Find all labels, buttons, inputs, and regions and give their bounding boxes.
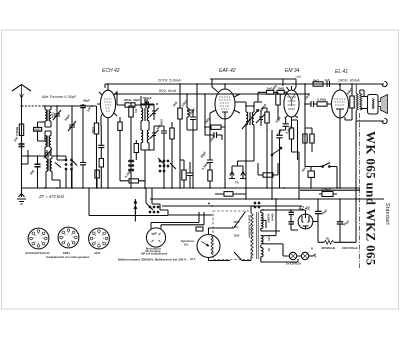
wire EL41 grid left — [327, 103, 332, 105]
svg-text:50pF: 50pF — [200, 151, 208, 159]
wire primary top — [250, 206, 252, 213]
capacitor 5nF mains box — [308, 171, 314, 177]
svg-text:ECH42,EAF42,EL41: ECH42,EAF42,EL41 — [26, 251, 51, 255]
svg-text:7: 7 — [63, 237, 64, 239]
wire ground bus double segment — [300, 189, 360, 191]
tube EL41 envelope — [332, 90, 349, 118]
wire x299 down — [298, 160, 300, 199]
svg-text:0,1MΩ: 0,1MΩ — [317, 98, 327, 102]
IF transformer T2 secondary — [252, 106, 254, 130]
resistor 1M box — [277, 90, 284, 94]
dashdot chassis line — [359, 113, 361, 268]
wire selector top — [209, 228, 235, 235]
svg-text:2: 2 — [71, 234, 72, 236]
resistor antenna shunt — [19, 124, 23, 136]
capacitor 50pF below EM34 — [283, 124, 289, 127]
switch contacts column mid — [129, 160, 131, 162]
capacitor HV a — [289, 212, 295, 214]
wire EM34 col — [292, 120, 298, 160]
capacitor 5nF x164 — [161, 131, 167, 133]
selector circle — [197, 235, 220, 258]
svg-text:Sockelansicht von unten gesehe: Sockelansicht von unten gesehen — [46, 255, 90, 259]
wire x193 — [187, 110, 193, 188]
svg-text:207V, 5,6mA: 207V, 5,6mA — [157, 78, 181, 83]
switch contacts lower row2 — [149, 211, 151, 213]
wire col x83 — [82, 104, 84, 156]
svg-text:0,5MΩ: 0,5MΩ — [15, 126, 19, 136]
switch contacts lower row1 — [149, 206, 151, 208]
wire antenna branch loop — [22, 150, 29, 164]
svg-text:220V: 220V — [234, 220, 240, 224]
resistor 1M horizontal — [211, 125, 221, 129]
capacitor 50pF top — [145, 99, 147, 105]
resistor R6 x172 — [170, 128, 174, 139]
box GBA on wire — [196, 227, 203, 231]
svg-text:1: 1 — [38, 234, 39, 236]
svg-text:425/26mH: 425/26mH — [321, 246, 335, 250]
capacitor 50uF b — [337, 222, 343, 224]
wire switch cols — [305, 130, 319, 167]
resistor x120 — [118, 122, 122, 131]
trimmer T2a — [256, 110, 265, 126]
wire x101 lower — [100, 126, 102, 188]
tube AZ41 envelope — [298, 214, 313, 229]
wire x172 — [171, 122, 173, 188]
output transformer primary zigzag — [356, 84, 358, 110]
svg-text:4V: 4V — [267, 248, 271, 251]
switch arm mid — [158, 158, 176, 169]
wire selector bottom — [209, 258, 231, 261]
svg-text:(HF voll ausgesteuert): (HF voll ausgesteuert) — [141, 252, 167, 255]
wire lamps — [283, 251, 316, 256]
wire transformer bottom — [356, 110, 384, 121]
pilot lamp 1 — [289, 252, 296, 259]
antenna symbol — [12, 85, 31, 92]
wire x131 — [130, 103, 132, 188]
wire EAF42 plate top — [224, 84, 226, 89]
switch contacts mid cluster — [159, 160, 161, 162]
tube ECH42 electrodes — [104, 99, 112, 111]
node — [21, 105, 23, 107]
wire x352 — [345, 84, 352, 120]
ground symbol main — [17, 188, 26, 204]
tube EM34 electrodes — [287, 97, 296, 109]
wire res to coil — [38, 121, 52, 141]
svg-text:7: 7 — [33, 238, 34, 240]
resistor 50kO screen x352 — [350, 96, 354, 108]
svg-text:Alle Trimmer 5-30pF: Alle Trimmer 5-30pF — [41, 95, 77, 99]
svg-text:20kΩ, 50pF: 20kΩ, 50pF — [124, 98, 140, 102]
capacitor x190 — [187, 173, 193, 176]
svg-text:5: 5 — [98, 243, 99, 245]
transformer secondary HV winding — [261, 213, 263, 229]
wire switch net drop — [145, 188, 147, 203]
wire col x96 — [96, 106, 98, 188]
svg-text:≈0V: ≈0V — [296, 75, 303, 79]
wire x312 vert — [305, 128, 312, 152]
wire HV winding taps — [261, 210, 291, 231]
coil L2 core — [48, 136, 49, 148]
wire measure tap x135 — [134, 199, 137, 222]
svg-text:7: 7 — [94, 238, 95, 240]
switch S2 arm — [72, 161, 77, 166]
svg-text:Standart: Standart — [384, 203, 390, 225]
wire x292 tail — [292, 139, 300, 160]
svg-text:WK 065 und WKZ 065: WK 065 und WKZ 065 — [364, 131, 379, 266]
selector resistor zigzag — [211, 236, 213, 255]
transformer core — [256, 212, 258, 259]
svg-text:5: 5 — [38, 243, 39, 245]
wire x97b — [96, 178, 98, 188]
svg-text:6: 6 — [65, 241, 66, 243]
svg-text:2x300V: 2x300V — [267, 214, 271, 223]
coil L1a antenna pair — [45, 106, 47, 127]
wire T1 bottoms — [141, 142, 154, 188]
switch S1 contacts — [65, 159, 67, 161]
wire AZ41 top — [291, 210, 306, 214]
svg-text:3: 3 — [43, 238, 44, 240]
capacitor C3 right column — [80, 105, 86, 107]
svg-text:AZ41: AZ41 — [94, 251, 101, 255]
wire T1 tops — [141, 96, 154, 104]
oscillator coil pair left — [46, 156, 48, 188]
resistor 0.2M x292 low — [289, 128, 293, 139]
svg-text:500Ω: 500Ω — [34, 127, 40, 131]
tube EAF42 envelope — [215, 89, 235, 119]
IF T2 arrow — [242, 110, 259, 130]
capacitor 10nF h — [214, 132, 217, 138]
wire right col x356 — [355, 121, 357, 199]
svg-text:50μF: 50μF — [342, 219, 350, 227]
svg-text:EM 34: EM 34 — [285, 68, 300, 74]
socket pin numbers — [33, 233, 104, 245]
svg-text:50pF: 50pF — [83, 99, 90, 103]
svg-text:50pF: 50pF — [275, 116, 283, 124]
meter circle — [146, 228, 165, 247]
wire heater winding taps — [261, 199, 283, 251]
IF transformer T2 primary — [246, 106, 248, 130]
resistor x101 lower — [99, 159, 103, 168]
svg-text:0,05μF: 0,05μF — [322, 188, 332, 192]
transformer primary zigzag — [251, 213, 253, 258]
resistor 1M vert x278 — [276, 94, 280, 105]
tube EAF42 side pins — [210, 94, 240, 113]
output transformer secondary zigzag — [360, 94, 362, 111]
wire x101 grid — [100, 116, 102, 126]
svg-text:EL 41: EL 41 — [335, 69, 348, 75]
svg-text:1kΩ: 1kΩ — [172, 100, 179, 107]
junction dots ground bus — [44, 187, 46, 189]
wire top link — [45, 105, 97, 107]
coil L2a antenna pair — [45, 131, 47, 156]
wire x267 — [262, 108, 267, 188]
wire TA feeds — [232, 140, 254, 172]
tube EM34 bottom wires — [285, 116, 299, 121]
svg-text:1nF: 1nF — [325, 78, 331, 82]
tube ECH42 pin stubs — [99, 92, 117, 116]
resistor small x97b — [95, 170, 99, 178]
capacitor 1nF in top bus — [327, 81, 330, 87]
pilot lamp 2 — [301, 252, 308, 259]
wire ground bus — [21, 187, 360, 189]
svg-text:50pF: 50pF — [64, 114, 72, 122]
svg-text:TA: TA — [235, 181, 240, 185]
svg-text:1: 1 — [98, 234, 99, 236]
trimmer C1 — [53, 110, 61, 120]
wire x184 — [180, 160, 184, 188]
svg-text:N: N — [311, 247, 313, 251]
node dots above selector — [208, 203, 210, 205]
wire 50uF b col — [339, 199, 341, 242]
wire coupling row — [305, 103, 317, 105]
resistor 2kO in top bus — [313, 82, 323, 86]
wire EL41 plate top — [339, 84, 341, 90]
svg-text:NF: NF — [154, 232, 158, 236]
wire 5nF — [310, 167, 312, 189]
resistor small x184 — [182, 170, 186, 180]
svg-text:2: 2 — [102, 235, 103, 237]
wire x278 — [276, 93, 278, 121]
wire trimmer column — [57, 106, 66, 160]
tube EM34 envelope — [284, 90, 299, 117]
wire 207V top bus — [105, 83, 384, 85]
svg-text:M03: M03 — [160, 119, 164, 125]
resistor 0.1M x210 low — [208, 170, 212, 181]
terminal C top — [382, 81, 387, 86]
svg-text:240V,50mA: 240V,50mA — [342, 246, 359, 250]
resistor 500ohm box — [34, 127, 42, 131]
svg-text:60mA: 60mA — [271, 214, 275, 221]
wire B+ rail — [318, 199, 356, 242]
wire lower bus 1 — [150, 198, 384, 200]
wire EL41 bottom — [339, 118, 341, 188]
oscillator coil core — [49, 159, 50, 172]
node B+ — [317, 198, 319, 200]
trimmer C2 — [68, 121, 76, 131]
speaker basket — [368, 95, 379, 115]
svg-text:6: 6 — [95, 242, 96, 244]
IF T1 core — [144, 108, 145, 121]
wire switch net step — [152, 188, 212, 215]
wire rect winding taps — [261, 245, 298, 262]
svg-text:240V, 30mA: 240V, 30mA — [337, 78, 360, 83]
node — [204, 126, 206, 128]
capacitor x193 — [190, 117, 196, 120]
transformer secondary heater winding — [261, 236, 263, 244]
svg-text:2: 2 — [41, 235, 42, 237]
wire 80V second bus — [114, 93, 310, 95]
wire ECH42 plate to top bus corner — [104, 84, 106, 88]
wire trimmer2 column — [71, 106, 73, 188]
resistor 0.3M vert x267 — [265, 112, 269, 123]
wire x210 low — [209, 163, 211, 189]
svg-text:EM34: EM34 — [63, 251, 70, 255]
capacitor band C4 — [80, 163, 86, 165]
switch arm lower — [146, 203, 153, 210]
resistor R in 2nd bus — [125, 103, 135, 107]
wire band caps — [66, 156, 83, 188]
resistor R5 vertical x131 — [129, 106, 133, 117]
wire padder — [22, 156, 67, 188]
contacts right cluster — [254, 202, 256, 204]
wire heater row drop — [282, 247, 284, 251]
resistor x136 small — [134, 144, 138, 153]
capacitor x101 50pF — [98, 145, 104, 147]
meter internals — [152, 233, 161, 242]
tube AZ41 anodes — [302, 214, 309, 229]
wire speaker links — [360, 90, 368, 109]
svg-text:Licht u. Kraftstrom: Licht u. Kraftstrom — [248, 215, 251, 238]
wire x120 — [119, 117, 121, 181]
wire x284 — [280, 118, 286, 135]
wire AZ41 right — [313, 221, 318, 223]
wire x89 drop to meter net — [89, 188, 168, 216]
svg-text:80V, 5mA: 80V, 5mA — [159, 88, 177, 93]
svg-text:M02: M02 — [51, 112, 55, 118]
speaker horn hatch — [382, 96, 386, 113]
tube EL41 cathode — [336, 109, 344, 118]
node 2nd bus — [116, 93, 118, 95]
wire HV caps — [291, 210, 298, 230]
svg-text:EAF 42: EAF 42 — [219, 68, 236, 74]
resistor 1M horizontal low — [263, 173, 273, 177]
svg-text:ECH 42: ECH 42 — [102, 68, 120, 74]
socket view EM34 — [58, 227, 79, 248]
wire x180 — [179, 84, 181, 188]
IF transformer T1 box coils — [141, 104, 143, 126]
svg-text:2x 6,3V/0,3A: 2x 6,3V/0,3A — [286, 262, 301, 266]
wire caps row — [205, 94, 225, 140]
resistor 0.1M grid — [317, 102, 327, 106]
tube EAF42 cathode — [222, 112, 228, 119]
tube EM34 top wires — [287, 79, 297, 91]
svg-text:3: 3 — [73, 237, 74, 239]
wire 2nF row — [258, 91, 287, 93]
capacitor antenna series 1nF — [19, 144, 25, 147]
wire x190 — [189, 162, 191, 188]
node — [339, 83, 341, 85]
junction dots lower buses — [245, 198, 247, 200]
trimmer T1b — [150, 126, 159, 142]
speaker voice coil zigzag — [372, 99, 374, 109]
wire 50uF a col — [317, 199, 319, 242]
selector arm switch — [234, 212, 246, 228]
wire T2 top — [235, 102, 262, 106]
svg-text:500: 500 — [29, 169, 35, 176]
capacitor padder thick — [35, 164, 41, 167]
svg-text:125V: 125V — [232, 225, 238, 229]
box 0.05uF suppressor — [322, 192, 333, 197]
svg-text:8: 8 — [35, 235, 36, 237]
wire T2 bottom — [246, 130, 254, 199]
switch mains — [319, 163, 333, 167]
dashed box mains selector — [213, 211, 251, 260]
svg-text:6,3V: 6,3V — [267, 236, 271, 242]
wire x164 — [154, 126, 164, 188]
oscillator coil pair right — [50, 156, 60, 188]
tube EAF42 electrodes — [219, 97, 231, 109]
tube ECH42 envelope — [100, 90, 115, 118]
IF T2 core — [249, 112, 250, 125]
capacitor 50uF a — [315, 211, 322, 213]
coil L1 core — [48, 110, 49, 122]
svg-text:1nF: 1nF — [86, 106, 93, 113]
wire 0,15M — [120, 180, 145, 182]
label 20kO — [116, 91, 118, 94]
selector pointer — [201, 242, 209, 247]
svg-text:110V: 110V — [234, 233, 240, 237]
svg-text:5: 5 — [68, 242, 69, 244]
lamp box 6.3V on bus — [224, 192, 233, 197]
coil L1b antenna pair — [49, 106, 51, 127]
tube EL41 electrodes — [334, 99, 346, 105]
node — [339, 198, 341, 200]
capacitor 10nF x284 low — [276, 135, 282, 138]
socket view ECH42 — [28, 228, 49, 249]
choke 425/26mH zigzag — [324, 240, 334, 244]
resistor 2nF box — [267, 90, 274, 94]
capacitor 10nF coupling — [311, 101, 314, 107]
oscillator trimmer — [44, 149, 52, 158]
coil choke x187 — [187, 94, 189, 130]
svg-text:ZF = 472 kHz: ZF = 472 kHz — [38, 194, 65, 199]
wire meter links — [151, 212, 204, 229]
wire x210 col — [209, 113, 211, 160]
svg-text:3: 3 — [103, 238, 104, 240]
wire EAF42 bottom — [224, 119, 226, 188]
wire grid row — [117, 94, 154, 105]
svg-text:Dr.: Dr. — [326, 237, 330, 241]
wire x136 — [135, 140, 137, 160]
wire x272 — [271, 130, 273, 199]
svg-text:50μF: 50μF — [320, 208, 328, 216]
svg-text:0,9: 0,9 — [134, 108, 138, 113]
IF transformer T1 secondary coils — [141, 126, 143, 150]
wire x284 lower — [279, 138, 281, 188]
terminal C bottom — [382, 118, 387, 123]
label 0.05 — [319, 193, 337, 195]
resistor col x96 — [94, 123, 98, 134]
wire primary bottom — [234, 252, 251, 261]
switch S2 contacts — [71, 159, 73, 161]
socket view AZ41 — [89, 228, 110, 249]
transformer secondary rect winding — [261, 248, 263, 257]
svg-text:8: 8 — [95, 235, 96, 237]
capacitor 50pF x210 — [207, 160, 213, 163]
svg-text:1MΩ: 1MΩ — [278, 86, 285, 90]
capacitor HV b — [289, 222, 295, 224]
node antenna junction — [21, 163, 23, 165]
node — [56, 105, 58, 107]
svg-text:500pF: 500pF — [143, 96, 152, 100]
wire x197 — [187, 84, 197, 130]
TA phono jacks — [230, 172, 245, 179]
svg-text:Gl.4: Gl.4 — [190, 257, 196, 261]
wire dashed antenna to coil — [22, 105, 46, 107]
node top bus — [304, 83, 306, 85]
wire EAF42 grid top to bus79 — [210, 79, 296, 92]
wire x305 col — [304, 84, 306, 130]
svg-text:M04: M04 — [91, 127, 95, 133]
svg-text:N: N — [315, 255, 317, 259]
coil L2b antenna pair — [49, 131, 51, 156]
wire lower bus 2 — [162, 205, 302, 207]
resistor 0,15M horizontal — [129, 179, 139, 183]
switch det out — [272, 149, 281, 155]
wire 1M low — [258, 163, 278, 175]
trimmer T1a — [150, 104, 159, 120]
junction dots set A top buses — [21, 83, 357, 211]
